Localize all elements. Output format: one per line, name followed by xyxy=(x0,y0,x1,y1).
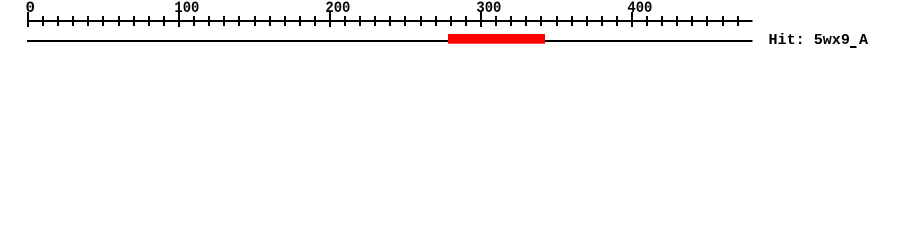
major tick 300 xyxy=(480,12,482,27)
major tick 200 xyxy=(329,12,331,27)
minor ticks (every 10 residues) xyxy=(42,16,739,26)
major tick 100 xyxy=(178,12,180,27)
svg-text:Hit: 5wx9 A: Hit: 5wx9 A xyxy=(769,32,869,49)
svg-text:0: 0 xyxy=(26,0,36,17)
hit region red bar xyxy=(448,34,545,44)
major tick 0 xyxy=(27,12,29,27)
svg-text:300: 300 xyxy=(476,0,501,17)
query sequence line xyxy=(27,40,753,42)
svg-text:200: 200 xyxy=(325,0,350,17)
svg-text:400: 400 xyxy=(627,0,652,17)
ruler axis line xyxy=(27,20,753,22)
major tick 400 xyxy=(631,12,633,27)
background xyxy=(0,0,900,60)
svg-text:100: 100 xyxy=(174,0,199,17)
hit underscore bar xyxy=(850,46,857,48)
